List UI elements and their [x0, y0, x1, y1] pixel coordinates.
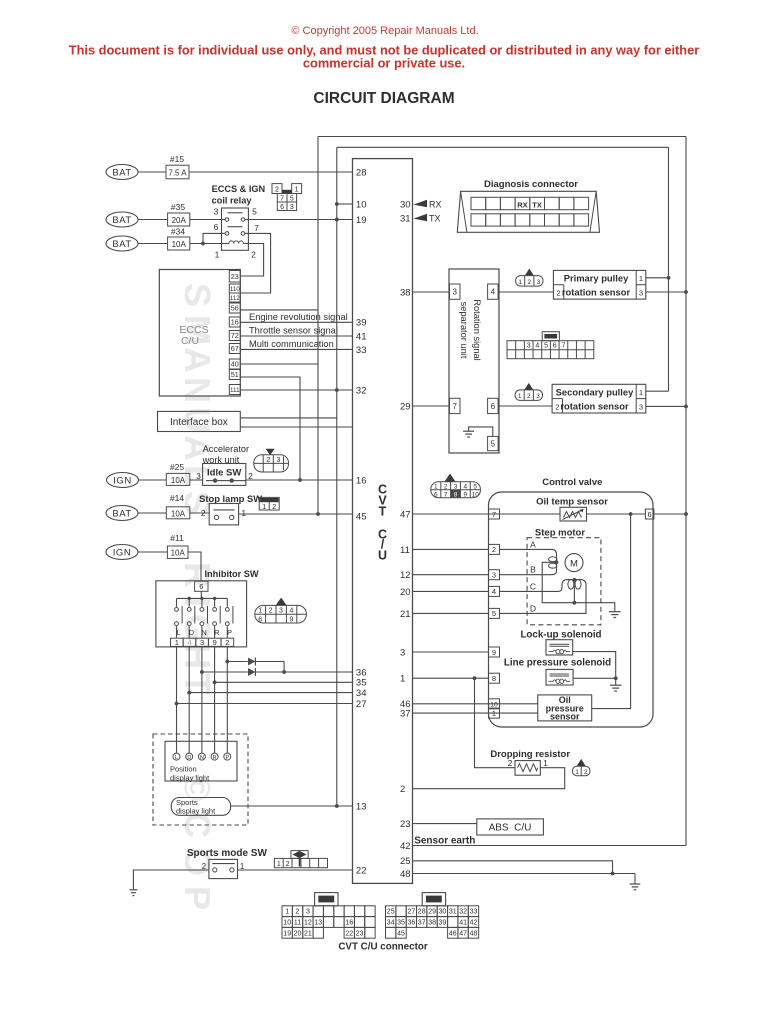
- svg-text:20: 20: [400, 587, 411, 598]
- sports mode switch: [202, 859, 245, 878]
- svg-text:41: 41: [356, 331, 367, 342]
- relay ECCS and IGN coil relay: [212, 184, 266, 260]
- svg-text:1: 1: [543, 758, 548, 768]
- svg-text:47: 47: [459, 930, 467, 937]
- svg-text:S: S: [177, 283, 218, 307]
- svg-text:32: 32: [459, 909, 467, 916]
- svg-text:110: 110: [230, 286, 241, 293]
- wire ECCS pin 51 to idle switch line: [240, 377, 300, 480]
- wire CVT pin 29 to separator pin 7: [413, 405, 450, 407]
- svg-text:Secondary pulley: Secondary pulley: [556, 386, 634, 397]
- svg-text:5: 5: [473, 483, 477, 490]
- svg-text:3: 3: [454, 483, 458, 490]
- svg-text:U: U: [378, 549, 387, 563]
- svg-text:8: 8: [492, 674, 496, 683]
- svg-text:C/U: C/U: [181, 335, 199, 347]
- wire secondary sensor pin 1 to feed: [646, 390, 669, 392]
- wire sports display light to CVT pin 13: [231, 805, 353, 807]
- svg-text:TX: TX: [532, 200, 542, 209]
- secondary pulley rotation sensor: [552, 384, 646, 413]
- wire ECCS pin 16 to CVT pin 39: [240, 321, 352, 323]
- wire separator pin 6 to secondary sensor pin 2: [498, 405, 552, 407]
- wire CVT pin 46 to oil pressure sensor: [413, 703, 538, 705]
- wire stop lamp switch to CVT pin 45: [239, 513, 353, 515]
- svg-text:56: 56: [231, 304, 239, 313]
- svg-text:coil relay: coil relay: [212, 196, 253, 206]
- svg-text:22: 22: [345, 930, 353, 937]
- wire shield left vertical: [317, 137, 319, 515]
- svg-text:21: 21: [400, 609, 411, 620]
- svg-text:Inhibitor SW: Inhibitor SW: [205, 569, 259, 579]
- fuse #34 10A: [168, 227, 190, 251]
- wire relay pin 2 to ECCS pin 23: [240, 244, 263, 277]
- svg-text:36: 36: [408, 920, 416, 927]
- svg-text:L: L: [177, 628, 181, 637]
- wire secondary sensor pin 3 to shield: [646, 405, 686, 407]
- svg-text:10A: 10A: [172, 240, 187, 249]
- svg-text:4: 4: [289, 608, 293, 615]
- ECCS C/U engine control unit box: [159, 270, 240, 397]
- svg-text:28: 28: [356, 167, 367, 178]
- svg-text:Step motor: Step motor: [535, 528, 585, 539]
- wire D position to CVT pin 34: [187, 691, 191, 695]
- svg-text:5: 5: [491, 439, 496, 448]
- svg-text:6: 6: [214, 222, 219, 232]
- svg-text:separator unit: separator unit: [459, 302, 469, 359]
- svg-text:4: 4: [491, 288, 496, 297]
- svg-text:16: 16: [356, 475, 367, 486]
- fuse #15 7.5A: [166, 154, 189, 179]
- svg-text:19: 19: [356, 215, 367, 226]
- wire feed top horizontal: [337, 146, 669, 148]
- svg-text:1: 1: [575, 769, 579, 776]
- svg-text:2: 2: [251, 250, 256, 260]
- svg-text:10A: 10A: [171, 476, 186, 485]
- svg-text:6: 6: [280, 204, 284, 211]
- battery terminal BAT (#35 row): [106, 212, 138, 227]
- ignition terminal IGN (#25 row): [107, 473, 139, 488]
- svg-text:#15: #15: [170, 154, 184, 164]
- svg-text:39: 39: [439, 920, 447, 927]
- svg-text:20A: 20A: [172, 216, 187, 225]
- svg-text:2: 2: [555, 403, 559, 412]
- svg-text:7: 7: [444, 491, 448, 498]
- wire sensor earth bottom edge: [413, 845, 687, 847]
- CVT C/U connector: [282, 906, 479, 938]
- sports display light: [171, 798, 230, 816]
- svg-text:6: 6: [434, 491, 438, 498]
- svg-text:112: 112: [230, 295, 241, 302]
- fuse #11 10A: [167, 533, 188, 558]
- svg-text:3: 3: [639, 403, 643, 412]
- svg-text:Engine revolution signal: Engine revolution signal: [249, 312, 348, 322]
- svg-text:1: 1: [258, 608, 262, 615]
- svg-text:BAT: BAT: [112, 239, 131, 250]
- svg-text:3: 3: [290, 204, 294, 211]
- svg-text:commercial or private use.: commercial or private use.: [303, 56, 465, 71]
- wire fuse #15 to pin 28: [189, 171, 353, 173]
- svg-text:3: 3: [453, 288, 458, 297]
- svg-text:Control valve: Control valve: [542, 477, 602, 488]
- svg-text:2: 2: [527, 279, 531, 286]
- wire CVT pin 21 step motor D: [413, 612, 489, 614]
- svg-text:27: 27: [356, 699, 367, 710]
- svg-text:Sports mode SW: Sports mode SW: [187, 848, 268, 859]
- svg-text:6: 6: [491, 402, 496, 411]
- separator pin 3: [450, 284, 461, 299]
- svg-text:Position: Position: [170, 765, 197, 774]
- separator pin 4: [488, 284, 499, 299]
- control valve pin boxes left: [489, 509, 500, 718]
- svg-text:2: 2: [400, 784, 405, 795]
- svg-text:N: N: [201, 628, 206, 637]
- svg-text:1: 1: [639, 274, 643, 283]
- secondary sensor connector 1-2-3: [515, 383, 542, 401]
- arrow TX from pin 31: [414, 214, 428, 221]
- svg-text:33: 33: [470, 909, 478, 916]
- wire interface box upper: [240, 417, 336, 419]
- copyright notice: [69, 25, 699, 71]
- svg-text:7: 7: [561, 343, 565, 350]
- svg-text:10: 10: [472, 491, 480, 498]
- svg-text:37: 37: [418, 920, 426, 927]
- fuse #14 10A: [166, 493, 190, 519]
- svg-text:51: 51: [231, 370, 239, 379]
- wire diodes to CVT pin 36: [255, 671, 352, 673]
- svg-text:1: 1: [434, 483, 438, 490]
- CVT C/U right pin numbers: [400, 199, 411, 880]
- svg-text:C: C: [530, 582, 536, 592]
- svg-text:3: 3: [200, 638, 204, 647]
- svg-text:4: 4: [187, 638, 191, 647]
- svg-text:ABS C/U: ABS C/U: [489, 823, 532, 834]
- svg-text:ECCS & IGN: ECCS & IGN: [212, 184, 266, 194]
- svg-text:Lock-up solenoid: Lock-up solenoid: [520, 630, 601, 641]
- wire oil temp sensor to pin 6 and shield: [587, 513, 646, 515]
- wire CVT pin 47 to oil temp sensor: [413, 513, 561, 515]
- svg-text:28: 28: [418, 909, 426, 916]
- svg-text:41: 41: [459, 920, 467, 927]
- svg-text:Oil temp sensor: Oil temp sensor: [536, 497, 608, 508]
- inhibitor switch contacts: [175, 591, 233, 638]
- arrow RX from pin 30: [414, 200, 428, 207]
- wires inhibitor outputs down to display lights: [177, 646, 228, 753]
- svg-text:#11: #11: [170, 533, 184, 543]
- ground for sports mode switch: [133, 870, 209, 890]
- wire oil pressure sensor to oil temp line: [592, 514, 631, 709]
- svg-text:P: P: [227, 628, 232, 637]
- separator pin 7: [450, 398, 461, 413]
- svg-text:6: 6: [648, 510, 652, 519]
- intermediate connector 3-7 grid: [507, 332, 594, 359]
- svg-text:9: 9: [289, 617, 293, 624]
- inhibitor switch box: [156, 581, 247, 647]
- svg-text:RX: RX: [429, 200, 442, 210]
- wire ECCS pin 72 to CVT pin 41: [240, 335, 352, 337]
- fuse #35 20A: [168, 202, 190, 226]
- svg-text:R: R: [214, 628, 220, 637]
- svg-text:45: 45: [397, 930, 405, 937]
- svg-text:23: 23: [400, 819, 411, 830]
- svg-text:38: 38: [400, 287, 411, 298]
- wire relay pin 6 to fuse #34 junction: [203, 233, 222, 243]
- separator pin 6: [488, 398, 499, 413]
- svg-text:L: L: [175, 755, 178, 761]
- shield top edge: [318, 136, 686, 138]
- wire interface box lower: [240, 426, 352, 428]
- svg-text:37: 37: [400, 709, 411, 720]
- svg-text:13: 13: [314, 920, 322, 927]
- svg-text:34: 34: [356, 688, 367, 699]
- svg-text:P: P: [177, 886, 218, 910]
- svg-text:5: 5: [544, 343, 548, 350]
- svg-text:3: 3: [306, 909, 310, 916]
- svg-text:9: 9: [464, 491, 468, 498]
- svg-text:22: 22: [356, 865, 367, 876]
- svg-text:IGN: IGN: [113, 475, 131, 486]
- separator pin 5: [488, 436, 499, 450]
- wire line pressure feed to dropping resistor: [475, 678, 516, 768]
- wire CVT pin 3 to lock-up solenoid: [413, 651, 489, 653]
- svg-text:2: 2: [508, 758, 513, 768]
- svg-text:67: 67: [231, 344, 239, 353]
- svg-text:3: 3: [214, 207, 219, 217]
- svg-text:25: 25: [400, 856, 411, 867]
- diagnosis connector cells: [471, 197, 589, 226]
- svg-text:1: 1: [285, 909, 289, 916]
- svg-text:2: 2: [266, 457, 270, 464]
- svg-text:2: 2: [269, 608, 273, 615]
- svg-text:Accelerator: Accelerator: [203, 444, 249, 454]
- svg-text:CVT C/U connector: CVT C/U connector: [338, 942, 427, 953]
- svg-text:2: 2: [225, 638, 229, 647]
- wire CVT pin 37 to oil pressure sensor: [413, 712, 538, 714]
- wire fuse #11 to inhibitor switch: [188, 552, 201, 581]
- lock-up solenoid: [546, 640, 573, 655]
- svg-text:20: 20: [294, 930, 302, 937]
- svg-text:© Copyright 2005 Repair Manual: © Copyright 2005 Repair Manuals Ltd.: [291, 25, 478, 37]
- CVT C/U left pin numbers: [356, 167, 367, 876]
- wire ECCS pin 111 to CVT pin 32: [240, 389, 352, 391]
- wire CVT pin 11 step motor A: [413, 548, 489, 550]
- svg-text:9: 9: [492, 648, 496, 657]
- inhibitor connector symbol 1234/6-9: [255, 598, 307, 624]
- wire relay output feed vertical: [335, 147, 353, 806]
- svg-text:N: N: [200, 755, 204, 761]
- wire BAT to fuse #34: [138, 243, 168, 245]
- wire relay pin 5 to CVT pin 19: [248, 219, 352, 221]
- svg-text:39: 39: [356, 318, 367, 329]
- interface box: [158, 411, 241, 431]
- diagnosis connector body: [457, 191, 599, 232]
- wire BAT to fuse #14: [138, 512, 166, 514]
- svg-text:3: 3: [536, 393, 540, 400]
- svg-text:4: 4: [492, 587, 496, 596]
- ignition terminal IGN (#11 row): [106, 545, 138, 560]
- inhibitor position letters L D N R P: [177, 628, 232, 637]
- svg-text:6: 6: [258, 617, 262, 624]
- svg-text:Primary pulley: Primary pulley: [564, 273, 629, 284]
- svg-text:Line pressure solenoid: Line pressure solenoid: [504, 658, 611, 669]
- svg-text:11: 11: [294, 920, 301, 927]
- fuse #25 10A: [166, 462, 190, 485]
- svg-text:11: 11: [400, 545, 410, 556]
- svg-text:#14: #14: [170, 493, 184, 503]
- svg-text:BAT: BAT: [112, 167, 131, 178]
- oil temp sensor: [560, 507, 587, 521]
- step motor phase labels: [530, 540, 536, 614]
- svg-text:BAT: BAT: [112, 215, 131, 226]
- step motor coil A-B: [500, 549, 559, 574]
- wire CVT pin 12 step motor B: [413, 574, 489, 576]
- svg-text:3: 3: [639, 289, 643, 298]
- svg-text:47: 47: [400, 509, 411, 520]
- svg-text:Interface box: Interface box: [170, 417, 228, 428]
- svg-text:48: 48: [400, 869, 411, 880]
- svg-text:10: 10: [490, 702, 498, 709]
- svg-text:2: 2: [275, 186, 279, 193]
- svg-text:BAT: BAT: [112, 508, 131, 519]
- svg-text:2: 2: [584, 769, 588, 776]
- line pressure solenoid: [546, 669, 573, 685]
- wire R position to CVT pin 35: [213, 680, 217, 684]
- primary sensor connector 1-2-3: [516, 269, 543, 287]
- svg-text:1: 1: [400, 674, 405, 685]
- wire sports mode switch to CVT pin 22: [238, 869, 353, 871]
- svg-text:29: 29: [400, 401, 411, 412]
- svg-text:#34: #34: [171, 227, 185, 237]
- svg-text:48: 48: [470, 930, 478, 937]
- svg-text:42: 42: [400, 841, 411, 852]
- svg-text:rotation sensor: rotation sensor: [562, 287, 631, 298]
- wire ECCS pin 56 to shield line: [240, 309, 318, 311]
- svg-text:19: 19: [283, 930, 291, 937]
- svg-text:1: 1: [277, 861, 281, 868]
- wire BAT to fuse #15: [138, 171, 166, 173]
- sports mode connector symbol: [274, 851, 327, 868]
- shield right edge: [685, 137, 687, 846]
- svg-text:12: 12: [304, 920, 312, 927]
- battery terminal BAT (#15 row): [106, 165, 138, 180]
- svg-text:1: 1: [215, 250, 220, 260]
- ABS C/U box: [477, 819, 544, 835]
- wire IGN to fuse #25: [139, 479, 167, 481]
- svg-text:2: 2: [296, 909, 300, 916]
- svg-text:42: 42: [470, 920, 478, 927]
- svg-text:1: 1: [639, 388, 643, 397]
- svg-text:31: 31: [400, 213, 411, 224]
- svg-text:72: 72: [231, 331, 239, 340]
- svg-text:2: 2: [444, 483, 448, 490]
- svg-text:Diagnosis connector: Diagnosis connector: [484, 179, 578, 190]
- svg-text:5: 5: [290, 196, 294, 203]
- svg-text:2: 2: [201, 508, 206, 518]
- primary pulley rotation sensor: [553, 270, 645, 299]
- svg-text:2: 2: [492, 545, 496, 554]
- step motor centre tap and ground: [542, 562, 620, 617]
- ECCS C/U pin cells: [229, 271, 240, 395]
- svg-text:23: 23: [356, 930, 364, 937]
- control valve pin 6 box right: [645, 509, 654, 519]
- svg-text:3: 3: [279, 608, 283, 615]
- svg-text:1: 1: [241, 508, 246, 518]
- wire CVT pin 23 to ABS C/U: [413, 823, 477, 825]
- svg-text:35: 35: [397, 920, 405, 927]
- wire L position to CVT pin 27: [175, 702, 179, 706]
- svg-text:2: 2: [286, 861, 290, 868]
- step motor coil C-D: [500, 578, 587, 614]
- svg-text:4: 4: [535, 343, 539, 350]
- wire BAT to fuse #35: [138, 219, 168, 221]
- svg-text:46: 46: [449, 930, 457, 937]
- display lights dashed enclosure: [153, 734, 248, 825]
- wire fuse #25 to idle switch: [190, 479, 203, 481]
- wire CVT pin 1 to line pressure solenoid: [413, 677, 489, 679]
- wire dropping resistor to CVT pin 2: [413, 768, 565, 789]
- svg-text:6: 6: [553, 343, 557, 350]
- svg-text:5: 5: [492, 609, 496, 618]
- svg-text:sensor: sensor: [550, 712, 580, 722]
- wire IGN to fuse #11: [138, 551, 167, 553]
- svg-text:D: D: [530, 604, 536, 614]
- control valve connector 1-10: [431, 474, 481, 499]
- svg-text:Throttle sensor signal: Throttle sensor signal: [249, 326, 338, 336]
- CVT C/U control unit box: [353, 159, 413, 884]
- diode D1 (P position): [225, 658, 284, 672]
- svg-text:27: 27: [408, 909, 416, 916]
- connector tab 1: [315, 893, 338, 906]
- svg-text:Rotation signal: Rotation signal: [472, 299, 482, 361]
- svg-text:21: 21: [304, 930, 312, 937]
- svg-text:rotation sensor: rotation sensor: [560, 401, 629, 412]
- svg-text:16: 16: [231, 318, 239, 327]
- svg-text:29: 29: [428, 909, 436, 916]
- battery terminal BAT (#14 row): [106, 506, 138, 521]
- wire CVT pin 20 step motor C: [413, 590, 489, 592]
- svg-text:1: 1: [295, 186, 299, 193]
- svg-text:40: 40: [231, 360, 239, 369]
- svg-text:D: D: [187, 755, 191, 761]
- svg-text:10A: 10A: [171, 509, 186, 518]
- watermark: [177, 283, 218, 910]
- svg-text:34: 34: [387, 920, 395, 927]
- wire ECCS pin 67 to CVT pin 33: [240, 348, 352, 350]
- wire primary sensor pin 1 to feed: [646, 277, 669, 279]
- separator internal ground: [463, 427, 493, 437]
- svg-text:Dropping resistor: Dropping resistor: [490, 749, 570, 760]
- svg-text:2: 2: [272, 504, 276, 511]
- oil pressure sensor: [538, 695, 592, 722]
- dropping resistor connector 1-2: [572, 759, 590, 776]
- svg-text:B: B: [530, 565, 536, 575]
- svg-text:12: 12: [400, 570, 411, 581]
- svg-text:4: 4: [464, 483, 468, 490]
- svg-text:2: 2: [557, 289, 561, 298]
- svg-text:R: R: [213, 755, 217, 761]
- svg-text:111: 111: [230, 387, 240, 394]
- svg-text:30: 30: [400, 199, 411, 210]
- wire separator pin 4 to primary sensor pin 2: [498, 291, 553, 293]
- svg-text:M: M: [570, 558, 578, 569]
- wire primary sensor pin 3 to shield: [646, 291, 686, 293]
- svg-text:display light: display light: [176, 807, 216, 816]
- svg-text:32: 32: [356, 385, 367, 396]
- svg-text:N: N: [177, 377, 218, 403]
- wire relay pin 7 to ECCS pin 110: [240, 233, 270, 293]
- svg-text:P: P: [225, 755, 229, 761]
- wire CVT pin 38 to separator pin 3: [413, 291, 450, 293]
- svg-text:A: A: [177, 347, 218, 373]
